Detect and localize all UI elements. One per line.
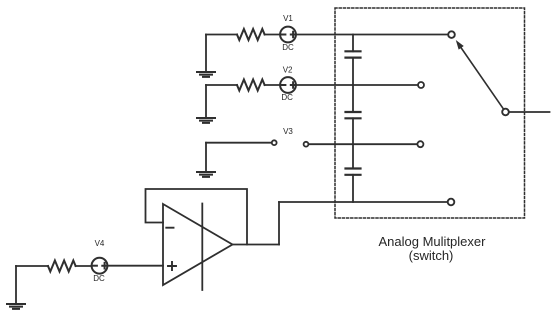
- svg-text:V4: V4: [95, 239, 105, 248]
- svg-text:V2: V2: [283, 65, 293, 74]
- svg-text:V3: V3: [283, 127, 293, 136]
- svg-text:V1: V1: [283, 14, 293, 23]
- svg-text:DC: DC: [93, 274, 105, 283]
- svg-text:DC: DC: [281, 93, 293, 102]
- svg-text:Analog Mulitplexer: Analog Mulitplexer: [379, 234, 487, 249]
- svg-text:(switch): (switch): [409, 248, 454, 263]
- svg-text:DC: DC: [282, 43, 294, 52]
